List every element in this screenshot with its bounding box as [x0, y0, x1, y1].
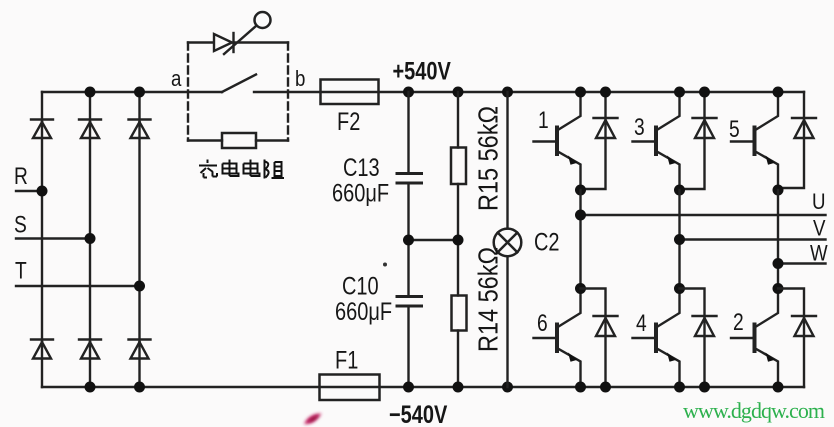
wire top rail (+540V bus) — [42, 91, 804, 93]
node Q6 collector junction — [575, 283, 586, 294]
label U — [812, 191, 826, 215]
diode antiparallel D1 — [581, 92, 618, 189]
label 2 — [733, 308, 744, 336]
svg-text:+540V: +540V — [393, 57, 451, 85]
wire output W — [778, 262, 826, 264]
svg-text:R15 56kΩ: R15 56kΩ — [474, 106, 504, 211]
charging resistor bypass bottom wire — [188, 139, 288, 141]
svg-text:V: V — [813, 217, 826, 241]
svg-text:3: 3 — [634, 113, 645, 141]
node bottom rail Q6 — [575, 382, 586, 393]
svg-text:6: 6 — [537, 309, 548, 337]
wire phase column U — [579, 190, 581, 289]
label R — [14, 162, 28, 190]
svg-text:U: U — [812, 191, 826, 215]
node top rail R15 column — [453, 87, 464, 98]
wire phase column V — [678, 190, 680, 289]
label F1 — [335, 346, 358, 374]
node top rail lamp column — [502, 87, 513, 98]
node Q5 emitter junction — [773, 185, 784, 196]
label R14 56k — [474, 247, 504, 352]
capacitor C13 — [397, 92, 422, 240]
svg-text:4: 4 — [636, 309, 647, 337]
diode antiparallel D2 (rail corner) — [778, 289, 816, 388]
label -540V — [389, 401, 447, 427]
transistor Q4 — [633, 289, 680, 388]
wire output U — [581, 214, 826, 216]
transistor Q3 — [633, 92, 680, 190]
diode bridge lower 2 — [79, 340, 101, 359]
svg-text:F2: F2 — [337, 108, 360, 136]
watermark www.dgdqw.com — [683, 398, 825, 423]
node midpoint C column — [403, 235, 414, 246]
label C2 — [534, 228, 560, 256]
label b — [295, 68, 305, 92]
svg-text:R14 56kΩ: R14 56kΩ — [474, 247, 504, 352]
node bottom rail Q4 — [674, 382, 685, 393]
svg-text:660μF: 660μF — [335, 298, 392, 326]
node W tap — [773, 258, 784, 269]
diode antiparallel D6 — [581, 289, 618, 388]
svg-text:a: a — [171, 68, 182, 92]
wire terminal T — [16, 285, 140, 287]
diode antiparallel D3 — [680, 92, 717, 189]
node S junction — [85, 233, 96, 244]
node bottom rail D4 — [699, 382, 710, 393]
svg-text:W: W — [810, 242, 828, 266]
resistor R14 — [452, 240, 467, 387]
diode bridge lower 1 — [31, 340, 53, 359]
fuse F2 body — [321, 80, 379, 105]
node T junction — [134, 281, 145, 292]
label 5 — [729, 115, 740, 143]
node Q4 collector junction — [674, 283, 685, 294]
node top rail C13 column — [403, 87, 414, 98]
diode bridge lower 3 — [129, 340, 151, 359]
svg-text:T: T — [15, 256, 27, 284]
pink scan mark — [304, 414, 322, 425]
svg-text:C10: C10 — [342, 272, 379, 300]
svg-text:F1: F1 — [335, 346, 358, 374]
svg-text:www.dgdqw.com: www.dgdqw.com — [683, 398, 825, 423]
node top rail Q1 — [575, 87, 586, 98]
charging resistor body — [222, 133, 256, 148]
label charging resistor (Chinese 充电电阻 drawn strokes) — [199, 160, 284, 179]
node top rail Q3 — [674, 87, 685, 98]
contactor box dashed left side — [187, 43, 189, 141]
wire terminal R — [16, 190, 42, 192]
label T — [15, 256, 27, 284]
fuse F1 body — [320, 375, 380, 401]
label C13 — [343, 154, 380, 182]
contactor box top wire — [188, 41, 288, 43]
wire phase column W — [777, 190, 779, 289]
node top rail D1 — [600, 87, 611, 98]
svg-text:R: R — [14, 162, 28, 190]
resistor R15 — [451, 92, 466, 240]
wire bridge column 1 — [41, 92, 43, 387]
label +540V — [393, 57, 451, 85]
transistor Q1 — [534, 92, 581, 190]
label 660uF upper — [332, 179, 389, 207]
svg-text:C13: C13 — [343, 154, 380, 182]
svg-text:S: S — [14, 210, 27, 238]
node top rail Q5 — [773, 87, 784, 98]
wire output V — [680, 238, 826, 240]
label 1 — [538, 106, 549, 134]
label R15 56k — [474, 106, 504, 211]
node bottom rail D6 — [600, 382, 611, 393]
node bottom rail C column — [403, 382, 414, 393]
node bottom rail lamp column — [502, 382, 513, 393]
svg-text:b: b — [295, 68, 305, 92]
svg-text:660μF: 660μF — [332, 179, 389, 207]
svg-text:2: 2 — [733, 308, 744, 336]
label 6 — [537, 309, 548, 337]
svg-text:C2: C2 — [534, 228, 560, 256]
label 3 — [634, 113, 645, 141]
transistor Q2 — [731, 289, 778, 388]
node bottom rail col2 — [85, 382, 96, 393]
label C10 — [342, 272, 379, 300]
lamp C2 wire top — [506, 92, 508, 229]
label 4 — [636, 309, 647, 337]
transistor Q6 — [534, 289, 581, 388]
capacitor C10 — [397, 240, 422, 387]
ink speck — [383, 263, 387, 267]
switch contact a-b — [222, 75, 256, 93]
lamp C2 wire bottom — [506, 256, 508, 387]
label 660uF lower — [335, 298, 392, 326]
svg-text:1: 1 — [538, 106, 549, 134]
label F2 — [337, 108, 360, 136]
label V — [813, 217, 826, 241]
transistor Q5 — [731, 92, 778, 190]
node bottom rail col3 — [134, 382, 145, 393]
lamp C2 body — [494, 229, 522, 257]
wire bottom rail (-540V bus) — [42, 386, 804, 388]
node top rail col2 — [85, 87, 96, 98]
node R junction — [37, 186, 48, 197]
node bottom rail Q2 — [773, 382, 784, 393]
node U tap — [575, 210, 586, 221]
node bottom rail R column — [453, 382, 464, 393]
label S — [14, 210, 27, 238]
label W — [810, 242, 828, 266]
node top rail col3 — [134, 87, 145, 98]
node V tap — [674, 234, 685, 245]
wire capacitor midpoint rail — [409, 239, 459, 241]
contactor box dashed right side — [287, 43, 289, 141]
wire terminal S — [16, 237, 90, 239]
thyristor symbol on box top — [214, 33, 234, 52]
svg-text:−540V: −540V — [389, 401, 447, 427]
diode bridge upper 3 — [129, 120, 151, 139]
diode bridge upper 1 — [31, 120, 53, 139]
node Q2 collector junction — [773, 283, 784, 294]
wire bridge column 2 — [89, 92, 91, 387]
label a — [171, 68, 182, 92]
diode antiparallel D5 (rail corner) — [778, 92, 816, 188]
diode antiparallel D4 — [680, 289, 717, 388]
diode bridge upper 2 — [79, 120, 101, 139]
node Q1 emitter junction — [575, 185, 586, 196]
node top rail D3 — [699, 87, 710, 98]
operator circle — [255, 12, 271, 28]
wire bridge column 3 — [138, 92, 140, 387]
node midpoint R column — [453, 235, 464, 246]
node Q3 emitter junction — [674, 185, 685, 196]
operator lever — [224, 26, 256, 54]
svg-text:5: 5 — [729, 115, 740, 143]
